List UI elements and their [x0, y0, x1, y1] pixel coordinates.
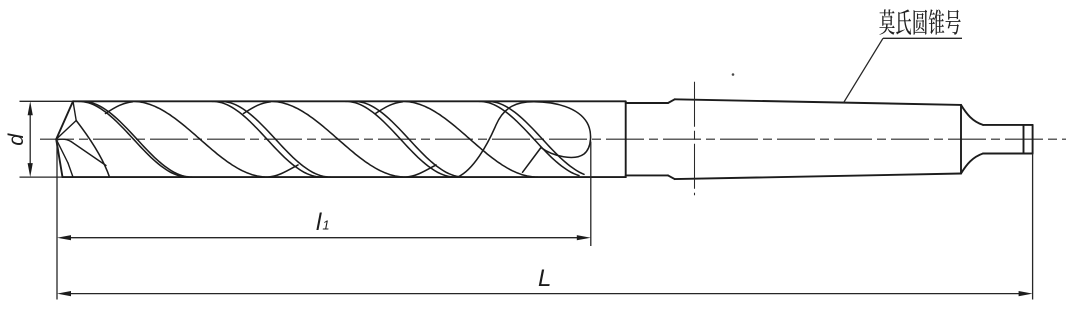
flute land face curve 3 [376, 101, 538, 177]
taper lead chamfer top [668, 99, 675, 103]
drill point lower facet tip to corner [56, 139, 68, 163]
flute margin pair 3a [346, 101, 456, 177]
flute groove end edge [523, 148, 542, 173]
tang end vertical [1032, 125, 1034, 154]
flute margin pair 2b [221, 101, 331, 177]
leader underline [883, 37, 962, 39]
extension line left (tip) [56, 139, 58, 299]
drill point lower facet corner to bottom [68, 163, 73, 177]
body outline bottom [63, 176, 626, 178]
label text 莫氏圆锥号 (Morse taper number) [879, 9, 960, 35]
neck outline bottom [626, 174, 668, 176]
neck outline top [626, 102, 668, 104]
flute margin pair 4a (runout) [479, 101, 579, 175]
extension line top of d dimension [20, 100, 74, 102]
centerline drill axis [40, 138, 1066, 140]
extension line bottom of d dimension [20, 176, 71, 178]
morse taper top edge [675, 99, 961, 105]
morse taper bottom edge [675, 174, 961, 180]
flute margin pair 1a (from point shoulder) [79, 101, 189, 177]
body-neck boundary vertical [625, 101, 627, 177]
taper lead chamfer bottom [668, 175, 675, 179]
svg-text:L: L [538, 265, 551, 292]
taper gauge plane centerline vertical [694, 82, 696, 196]
flute margin pair 4b (runout) [488, 101, 585, 174]
dimension line L [57, 291, 1033, 296]
flute margin pair 2a [212, 101, 322, 177]
svg-text:l1: l1 [316, 209, 330, 236]
flute runout hook [458, 102, 591, 177]
tang bottom edge [983, 153, 1033, 155]
leader line to taper [844, 38, 884, 103]
taper end vertical [960, 105, 962, 174]
dimension line l1 [57, 235, 591, 240]
drill point lower silhouette tip to bottom [56, 139, 62, 177]
drill point chisel edge arc [57, 139, 71, 141]
body outline top [73, 100, 626, 102]
drill point corner to shoulder [73, 101, 76, 120]
tang top edge [983, 124, 1033, 126]
tang inner vertical line [1023, 125, 1025, 154]
extension line flute end [590, 142, 592, 247]
dimension line d with arrows [28, 101, 33, 177]
svg-text:d: d [4, 133, 28, 146]
flute land face curve 1 [106, 101, 299, 177]
drill point flank arc [76, 121, 109, 178]
drill point lower lip edge [71, 142, 106, 166]
tang fillet top [961, 105, 983, 125]
flute land face curve 2 [244, 101, 437, 177]
drill point cutting lip tip to corner [56, 121, 76, 140]
flute margin pair 3b [354, 101, 464, 177]
small speck [732, 73, 735, 76]
tang fillet bottom [961, 154, 983, 174]
drill point silhouette upper line tip to shoulder [56, 101, 73, 139]
flute margin pair 1b [82, 101, 192, 177]
extension line tang end [1032, 154, 1034, 300]
